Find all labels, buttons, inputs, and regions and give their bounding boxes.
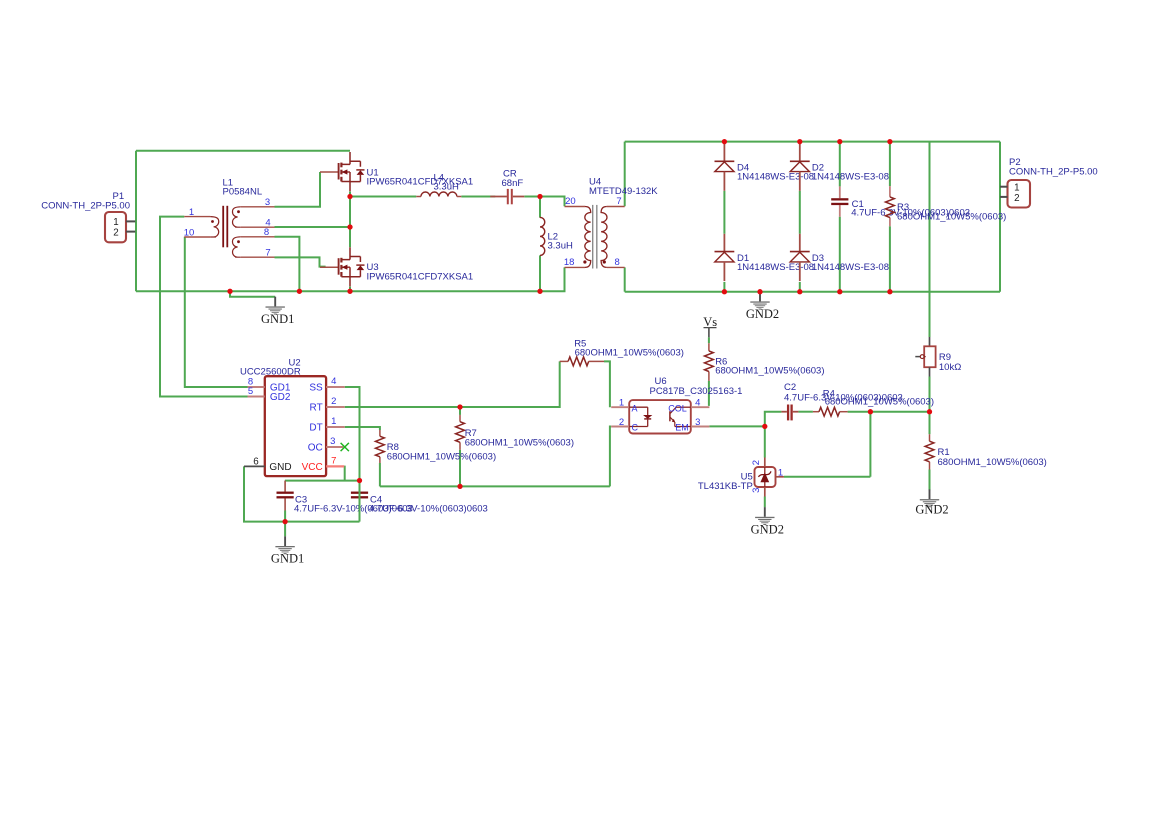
- svg-text:GND1: GND1: [261, 312, 294, 326]
- svg-text:680OHM1_10W5%(0603): 680OHM1_10W5%(0603): [825, 397, 934, 408]
- U6 pin stubs: [611, 406, 629, 408]
- capacitor C2: [781, 411, 787, 413]
- svg-text:C2: C2: [784, 382, 796, 393]
- resistor R6: [705, 351, 714, 372]
- wire Vs to R6: [708, 337, 710, 343]
- ground GND2 under R1: [929, 489, 931, 499]
- wire left rail: [135, 151, 137, 292]
- transformer L1 secondary A dot: [237, 210, 240, 213]
- U5 pin stubs: [764, 458, 766, 468]
- svg-text:CONN-TH_2P-P5.00: CONN-TH_2P-P5.00: [41, 201, 130, 212]
- resistor R7 leads: [459, 415, 461, 422]
- svg-text:1: 1: [189, 207, 194, 218]
- wire L1 pin3 to U1 gate: [275, 172, 321, 207]
- wire R5 right to U6 pin1: [604, 361, 610, 407]
- wire L1 pin7 to U3 gate: [275, 257, 326, 266]
- wire half-bridge node: [349, 192, 351, 248]
- junction C1 top: [837, 139, 842, 144]
- svg-text:GND2: GND2: [746, 307, 779, 321]
- svg-text:680OHM1_10W5%(0603): 680OHM1_10W5%(0603): [465, 437, 574, 448]
- wire R3 bottom: [889, 226, 891, 292]
- svg-text:CONN-TH_2P-P5.00: CONN-TH_2P-P5.00: [1009, 166, 1098, 177]
- resistor R8 leads: [379, 430, 381, 436]
- junction half-bridge/L4: [347, 194, 352, 199]
- wire R9 feed: [929, 142, 931, 337]
- inductor L2: [539, 216, 541, 219]
- resistor R4 leads: [813, 411, 819, 413]
- svg-text:MTETD49-132K: MTETD49-132K: [589, 186, 658, 197]
- svg-text:3: 3: [695, 417, 700, 428]
- junction C1 bottom: [837, 289, 842, 294]
- potentiometer R9: [929, 337, 931, 346]
- svg-text:UCC25600DR: UCC25600DR: [240, 366, 301, 377]
- U2 pin GD1 stub: [248, 386, 265, 388]
- svg-text:Vs: Vs: [703, 315, 717, 329]
- capacitor C4 leads: [359, 481, 361, 492]
- transistor U3: [341, 247, 360, 259]
- svg-text:4: 4: [695, 397, 700, 408]
- svg-text:10: 10: [184, 227, 195, 238]
- svg-text:3: 3: [265, 197, 270, 208]
- shunt regulator U5 body: [755, 467, 776, 487]
- svg-text:GND2: GND2: [915, 502, 948, 516]
- wire R7 bottom: [459, 450, 461, 487]
- wire U5 pin2 link: [764, 426, 766, 457]
- svg-text:2: 2: [113, 227, 118, 238]
- svg-text:OC: OC: [308, 442, 323, 453]
- svg-text:7: 7: [265, 248, 270, 259]
- svg-text:7: 7: [331, 455, 336, 466]
- svg-text:GD2: GD2: [270, 392, 291, 403]
- transformer L1 primary dot: [211, 220, 214, 223]
- junction CR/L2: [537, 194, 542, 199]
- wire U6 pin3 to node: [709, 425, 764, 427]
- junction U5 fb: [868, 409, 873, 414]
- wire U2 VCC node: [285, 466, 360, 481]
- svg-text:2: 2: [1014, 193, 1019, 204]
- junction R3 bottom: [887, 289, 892, 294]
- no-connect X on OC: [341, 443, 349, 451]
- wire U2 RT to R5: [345, 361, 560, 407]
- inductor L4: [416, 196, 421, 198]
- connector P2: [1008, 180, 1031, 208]
- svg-text:1N4148WS-E3-08: 1N4148WS-E3-08: [737, 262, 814, 273]
- resistor R1: [925, 441, 934, 462]
- junction GND1 tap: [227, 289, 232, 294]
- svg-text:3.3uH: 3.3uH: [548, 241, 573, 252]
- wire R8 bottom: [379, 463, 381, 486]
- wire R7-R8 bottom rail: [380, 485, 610, 487]
- svg-text:RT: RT: [310, 403, 323, 414]
- wire node to L4: [350, 196, 416, 198]
- wire R7 top: [459, 407, 461, 415]
- wire U3 source to rail: [349, 287, 351, 292]
- svg-text:8: 8: [615, 257, 620, 268]
- wire U4 pin8 down: [624, 267, 626, 291]
- junction L1 pin8: [297, 289, 302, 294]
- wire D3 anode to rail: [799, 282, 801, 292]
- wire junction to U4 pin20: [540, 197, 565, 207]
- wire L1 pin10 to U2 GD1: [185, 237, 248, 387]
- svg-text:C: C: [632, 423, 639, 433]
- junction RT/R7: [457, 404, 462, 409]
- svg-text:18: 18: [564, 257, 575, 268]
- diode D1: [723, 234, 725, 252]
- svg-text:GND1: GND1: [271, 552, 304, 566]
- wire U4 pin7 up: [624, 142, 626, 207]
- ground GND1 primary: [274, 297, 276, 307]
- wire U5 pin1 up: [869, 412, 871, 477]
- svg-text:680OHM1_10W5%(0603): 680OHM1_10W5%(0603): [387, 451, 496, 462]
- svg-text:4.7UF-6.3V-10%(0603)0603: 4.7UF-6.3V-10%(0603)0603: [369, 504, 488, 515]
- transformer U4 right dot: [603, 260, 606, 263]
- junction D1 bottom: [722, 289, 727, 294]
- svg-text:GND: GND: [269, 462, 291, 473]
- optocoupler U6 body: [629, 400, 691, 433]
- svg-text:680OHM1_10W5%(0603): 680OHM1_10W5%(0603): [715, 366, 824, 377]
- resistor R3 leads: [889, 186, 891, 197]
- svg-text:1N4148WS-E3-08: 1N4148WS-E3-08: [812, 172, 889, 183]
- svg-text:680OHM1_10W5%(0603): 680OHM1_10W5%(0603): [575, 348, 684, 359]
- wire U5 pin3 down: [764, 497, 766, 508]
- wire SS/VCC net over C4: [359, 481, 361, 522]
- wire C1 bottom: [839, 217, 841, 292]
- wire secondary bottom rail: [625, 291, 1000, 293]
- wire top-left rail: [136, 150, 350, 152]
- capacitor C3 leads: [284, 481, 286, 492]
- svg-text:680OHM1_10W5%(0603): 680OHM1_10W5%(0603): [897, 212, 1006, 223]
- svg-text:7: 7: [616, 196, 621, 207]
- wire L4 to CR: [461, 196, 495, 198]
- resistor R7: [456, 422, 465, 443]
- svg-text:TL431KB-TP: TL431KB-TP: [698, 481, 753, 492]
- svg-text:68nF: 68nF: [502, 178, 524, 189]
- U2 pin GND stub: [244, 465, 265, 467]
- wire D4-D1 mid: [723, 191, 725, 234]
- junction R3 top: [887, 139, 892, 144]
- U2 pin RT stub: [326, 406, 345, 408]
- transformer U4 right winding: [601, 207, 607, 268]
- svg-text:1: 1: [778, 467, 783, 478]
- svg-text:2: 2: [751, 460, 762, 465]
- U6 phototransistor: [676, 406, 691, 408]
- U2 pin OC stub: [326, 446, 343, 448]
- junction R7/R8 rail: [457, 484, 462, 489]
- junction C3/GND1: [282, 519, 287, 524]
- junction R4/R9/R1: [927, 409, 932, 414]
- capacitor C1: [839, 186, 841, 198]
- transformer L1 secondary winding A: [232, 207, 240, 227]
- wire R9 to R1: [929, 377, 931, 435]
- diode D3: [799, 234, 801, 252]
- transformer L1 primary winding: [210, 217, 218, 237]
- resistor R6 leads: [708, 343, 710, 351]
- junction SS/VCC/C4: [357, 478, 362, 483]
- diode D4: [723, 144, 725, 162]
- U6 LED: [629, 406, 648, 408]
- wire CR to junction: [524, 196, 540, 198]
- capacitor CR: [490, 196, 507, 198]
- U2 pin VCC stub: [326, 465, 344, 467]
- capacitor C3 plates: [277, 492, 294, 494]
- ground GND2 rail: [759, 292, 761, 302]
- wire L1 pin8 to rail: [275, 237, 300, 291]
- svg-text:IPW65R041CFD7XKSA1: IPW65R041CFD7XKSA1: [367, 271, 474, 282]
- transformer U4 core: [592, 205, 593, 269]
- wire D2-D3 mid: [799, 191, 801, 234]
- op-amp U2 body: [265, 376, 326, 476]
- svg-text:P0584NL: P0584NL: [223, 187, 263, 198]
- resistor R5: [568, 357, 589, 366]
- junction GND2 tap: [757, 289, 762, 294]
- wire GND1 tap: [230, 291, 275, 296]
- ground GND1 under C3: [284, 536, 286, 546]
- U2 pin DT stub: [326, 426, 345, 428]
- wire secondary top rail: [625, 141, 1000, 143]
- diode D2: [799, 144, 801, 162]
- resistor R1 leads: [929, 434, 931, 441]
- svg-text:10kΩ: 10kΩ: [939, 362, 961, 373]
- U5 internals: [764, 467, 766, 487]
- svg-text:1N4148WS-E3-08: 1N4148WS-E3-08: [737, 172, 814, 183]
- wire R6 to U6 pin4: [708, 381, 710, 406]
- capacitor C4 plates: [351, 492, 368, 494]
- connector P1: [105, 212, 126, 242]
- wire node to C2: [765, 412, 782, 427]
- junction U3 source: [347, 289, 352, 294]
- svg-text:GND2: GND2: [751, 523, 784, 537]
- svg-text:680OHM1_10W5%(0603): 680OHM1_10W5%(0603): [938, 457, 1047, 468]
- junction L2 bottom: [537, 289, 542, 294]
- transformer U4 left winding: [585, 207, 591, 268]
- wire U2 GND to C3 bottom: [244, 466, 360, 521]
- svg-text:3.3uH: 3.3uH: [434, 181, 459, 192]
- resistor R8: [376, 436, 385, 457]
- svg-text:5: 5: [248, 386, 253, 397]
- svg-text:20: 20: [565, 196, 576, 207]
- wire C3 bottom link: [284, 511, 286, 522]
- transformer L1 secondary B dot: [237, 240, 240, 243]
- transformer U4 left dot: [583, 260, 586, 263]
- U2 pin GD2 stub: [248, 396, 265, 398]
- wire R3 top: [889, 142, 891, 187]
- wire C3 GND link: [284, 522, 286, 537]
- wire D1 anode to rail: [723, 282, 725, 292]
- svg-text:1: 1: [619, 397, 624, 408]
- svg-text:2: 2: [331, 396, 336, 407]
- resistor R3: [886, 197, 895, 218]
- svg-text:2: 2: [619, 417, 624, 428]
- wire C1 top: [839, 142, 841, 187]
- svg-text:3: 3: [751, 488, 762, 493]
- transformer L1 secondary winding B: [232, 237, 240, 257]
- wire P2 drop: [999, 142, 1001, 292]
- wire U2 DT to R8: [345, 427, 380, 430]
- junction D2 top: [797, 139, 802, 144]
- wire L2 bottom: [539, 255, 541, 291]
- transistor U1: [341, 152, 360, 164]
- svg-text:4: 4: [331, 376, 336, 387]
- svg-text:6: 6: [253, 457, 259, 468]
- svg-text:1: 1: [331, 416, 336, 427]
- wire U6 pin2 drop: [610, 427, 611, 487]
- junction D3 bottom: [797, 289, 802, 294]
- wire R4 to R9 line: [848, 411, 930, 413]
- svg-text:DT: DT: [309, 423, 322, 434]
- svg-text:EM: EM: [675, 423, 689, 433]
- U2 pin SS stub: [326, 386, 345, 388]
- svg-text:COL: COL: [668, 403, 687, 413]
- svg-text:PC817B_C3025163-1: PC817B_C3025163-1: [650, 386, 743, 397]
- svg-text:A: A: [632, 403, 638, 413]
- svg-text:SS: SS: [309, 383, 323, 394]
- resistor R5 leads: [560, 360, 568, 362]
- svg-text:1N4148WS-E3-08: 1N4148WS-E3-08: [812, 262, 889, 273]
- capacitor C1 plates: [831, 198, 848, 200]
- transformer L1 core: [222, 206, 224, 248]
- ground GND2 under U5: [764, 507, 766, 517]
- resistor R4: [819, 407, 840, 416]
- junction L1 pin4: [347, 224, 352, 229]
- wire L2 top: [539, 197, 541, 218]
- junction U6 pin3/U5: [762, 424, 767, 429]
- junction D4 top: [722, 139, 727, 144]
- svg-text:8: 8: [264, 227, 269, 238]
- svg-text:VCC: VCC: [302, 462, 323, 473]
- svg-text:3: 3: [330, 436, 335, 447]
- wire L1 pin4 to bridge mid: [275, 226, 351, 228]
- wire U2 SS to C4 node: [345, 387, 360, 481]
- wire R1 to GND2: [929, 470, 931, 491]
- wire C2 to R4: [798, 411, 813, 413]
- wire L1 pin1 to U2 GD2: [160, 217, 248, 397]
- wire U5 pin1 link: [784, 476, 871, 478]
- wire bottom-left GND1 rail: [136, 267, 565, 291]
